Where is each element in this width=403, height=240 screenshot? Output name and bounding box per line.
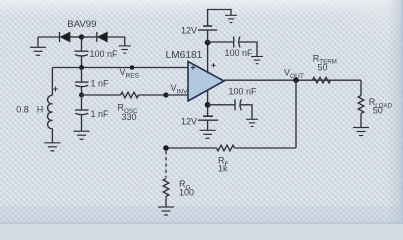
node at V+ rail bbox=[205, 40, 211, 46]
wire: C1 to node N2 bbox=[81, 56, 83, 67]
svg-text:330: 330 bbox=[122, 112, 137, 122]
wire: N2 to capacitor C2 bbox=[81, 68, 83, 83]
svg-text:50: 50 bbox=[318, 62, 328, 72]
wire: N3 to resistor ROSC bbox=[82, 94, 121, 96]
ground G1 (left of D1) bbox=[30, 37, 46, 55]
svg-text:100: 100 bbox=[179, 188, 194, 198]
op-amp U1 LM6181 bbox=[188, 62, 224, 102]
diode D2 (BAV99 half, cathode left) bbox=[82, 32, 108, 42]
wire: ROSC to node VINV bbox=[139, 94, 167, 96]
battery B2 12V (negative supply) bbox=[198, 116, 218, 120]
svg-text:LM6181: LM6181 bbox=[166, 50, 203, 61]
wire: D2 to ground G2 bbox=[107, 37, 124, 46]
node VINV bbox=[163, 92, 168, 97]
wire: C3 to ground G4 bbox=[81, 115, 83, 131]
svg-text:0.8: 0.8 bbox=[16, 104, 29, 114]
svg-text:1 nF: 1 nF bbox=[91, 78, 110, 88]
wire: B2 to ground G7 bbox=[207, 120, 209, 130]
wire: VINV to op-amp inverting input bbox=[166, 94, 188, 96]
wire: C5 to ground G8 bbox=[240, 105, 252, 120]
wire: feedback row right segment bbox=[235, 147, 297, 149]
svg-text:1 nF: 1 nF bbox=[91, 109, 110, 119]
resistor RF bbox=[217, 145, 235, 151]
wire: positive supply stub into op-amp bbox=[207, 43, 209, 73]
wire: L1 to ground G3 bbox=[51, 129, 53, 143]
node VOUT bbox=[293, 77, 299, 83]
ground G2 bbox=[119, 46, 131, 53]
dashed wire: N4 to RG bbox=[165, 151, 167, 178]
svg-text:BAV99: BAV99 bbox=[67, 19, 96, 30]
ground G10 bbox=[158, 207, 174, 215]
node at V- rail bbox=[205, 102, 211, 108]
svg-text:100 nF: 100 nF bbox=[229, 86, 258, 96]
svg-text:12V: 12V bbox=[181, 116, 197, 126]
svg-text:50: 50 bbox=[373, 106, 383, 116]
wire: main node row (inductor corner to op-amp +input) bbox=[52, 67, 188, 69]
plus marking at non-inverting input bbox=[191, 65, 195, 69]
svg-text:100 nF: 100 nF bbox=[225, 48, 254, 58]
ground G4 bbox=[74, 131, 90, 139]
node N4 (feedback junction) bbox=[163, 145, 169, 151]
wire: V+ rail to capacitor C4 bbox=[208, 41, 234, 43]
ground G9 bbox=[353, 128, 369, 136]
capacitor C2 1 nF bbox=[75, 82, 89, 87]
wire: RG to ground G10 bbox=[165, 197, 167, 208]
plus marking at positive supply pin bbox=[212, 63, 216, 67]
svg-text:100 nF: 100 nF bbox=[90, 49, 119, 59]
ground G7 bbox=[200, 130, 216, 138]
wire: node N1 down to capacitor C1 bbox=[81, 37, 83, 51]
resistor RLOAD bbox=[358, 96, 364, 114]
wire: ground G1 to diode D1 bbox=[38, 36, 60, 38]
ground G8 bbox=[246, 119, 258, 126]
svg-text:12V: 12V bbox=[181, 25, 197, 35]
wire: C4 to ground G6 bbox=[239, 42, 257, 57]
wire: RLOAD to ground G9 bbox=[360, 114, 362, 128]
node N1 (diode junction) bbox=[79, 34, 84, 39]
ground G5 bbox=[225, 15, 237, 22]
capacitor C5 100 nF (V- bypass) bbox=[235, 99, 241, 110]
resistor ROSC bbox=[121, 92, 139, 98]
wire: negative supply stub from op-amp bbox=[207, 90, 209, 116]
wire: B1 top to ground G5 bbox=[208, 10, 231, 27]
diode D1 (BAV99 half, cathode left) bbox=[60, 32, 71, 42]
ground G6 bbox=[251, 57, 263, 64]
node N3 (between 1 nF caps) bbox=[79, 93, 84, 98]
battery B1 12V (positive supply) bbox=[198, 26, 217, 43]
svg-text:1k: 1k bbox=[218, 164, 228, 174]
capacitor C4 100 nF (V+ bypass) bbox=[234, 37, 240, 48]
wire: C2 to node N3 bbox=[81, 87, 83, 95]
node VRES bbox=[130, 65, 135, 70]
capacitor C1 100 nF bbox=[75, 51, 89, 56]
polarity plus of L1 bbox=[53, 87, 57, 91]
resistor RTERM bbox=[313, 77, 331, 83]
inductor L1 bbox=[48, 95, 53, 128]
wire: D1 to node N1 bbox=[70, 36, 82, 38]
wire: VOUT down to feedback row bbox=[295, 80, 297, 148]
node N2 (junction above 1 nF chain) bbox=[79, 65, 84, 70]
wire: corner down to RLOAD bbox=[360, 80, 362, 95]
wire: row corner down to inductor L1 bbox=[51, 68, 53, 96]
wire: RF to node N4 bbox=[166, 147, 217, 149]
capacitor C3 1 nF bbox=[75, 95, 89, 115]
wire: V- rail to capacitor C5 bbox=[208, 104, 235, 106]
resistor RG bbox=[163, 179, 169, 197]
wire: op-amp output to RTERM corner bbox=[224, 79, 361, 81]
ground G3 bbox=[44, 143, 60, 151]
svg-text:H: H bbox=[37, 104, 44, 114]
